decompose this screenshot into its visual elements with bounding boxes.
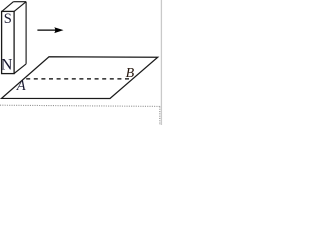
plane parallelogram (2, 57, 158, 99)
magnet top back edge (13, 1, 26, 3)
magnet top-right edge (14, 2, 26, 12)
svg-text:A: A (16, 78, 26, 94)
velocity arrow head (54, 27, 63, 33)
dashed line AB (26, 78, 133, 80)
grey page border vertical line (160, 0, 162, 125)
svg-text:S: S (4, 11, 12, 27)
magnet top-left edge (2, 2, 14, 12)
svg-text:N: N (1, 57, 13, 74)
grey dotted vertical rule segment (159, 106, 161, 125)
magnet bottom-right slant edge (14, 64, 26, 74)
magnet front face (2, 11, 15, 73)
magnet back-right vertical edge (25, 2, 27, 64)
svg-text:B: B (126, 66, 135, 81)
grey dotted horizontal rule (0, 105, 160, 106)
velocity arrow shaft (37, 29, 55, 31)
